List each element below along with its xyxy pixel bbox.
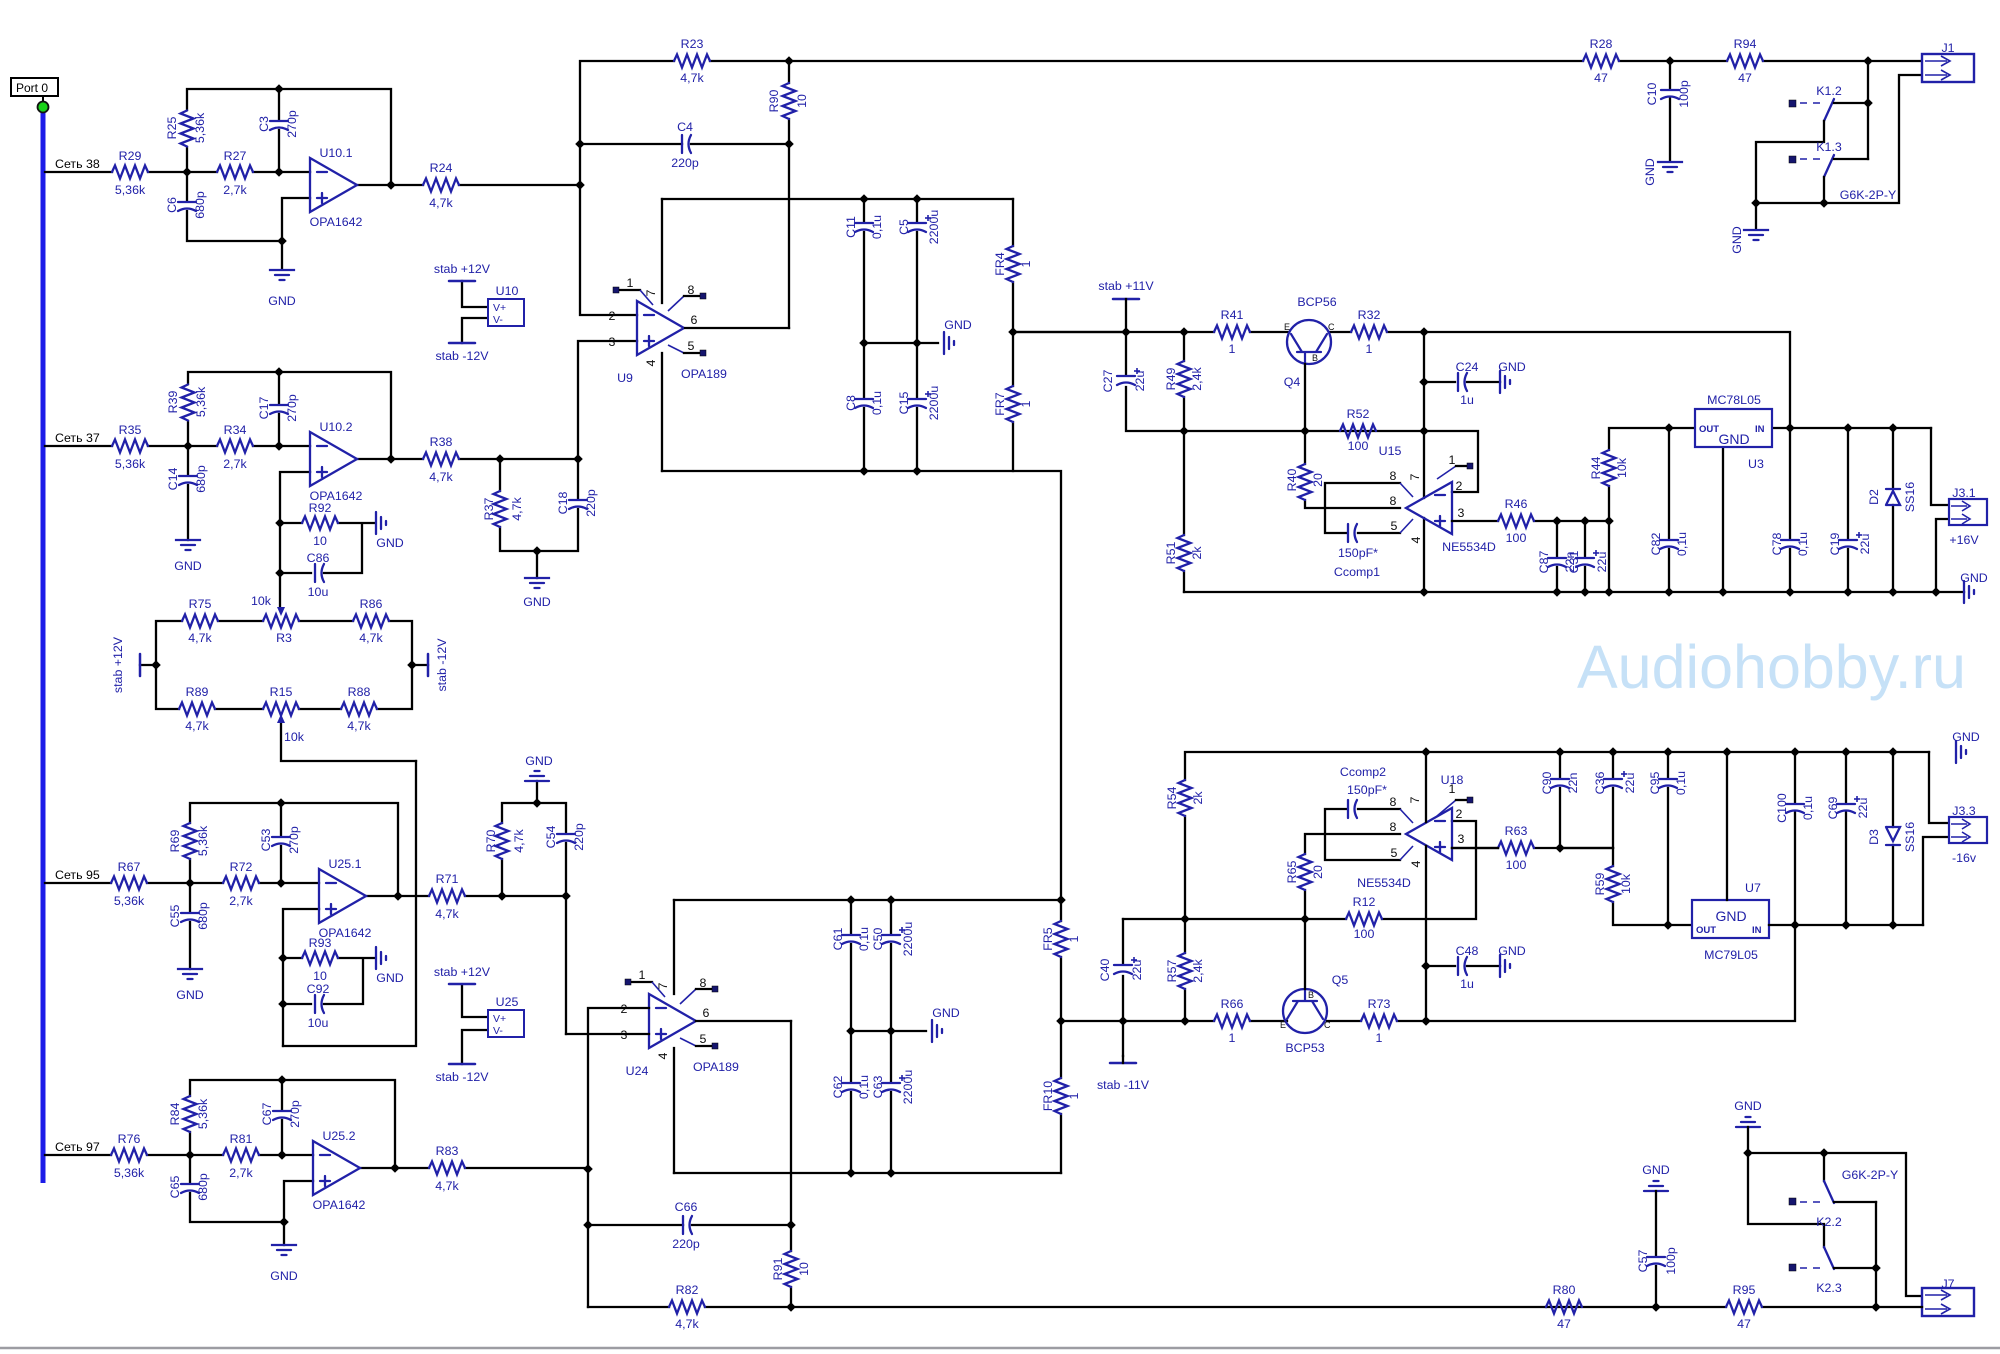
- svg-text:R57: R57: [1165, 960, 1179, 983]
- svg-text:270p: 270p: [285, 110, 299, 138]
- svg-text:V-: V-: [493, 314, 503, 326]
- svg-text:R88: R88: [348, 685, 371, 699]
- svg-text:22u: 22u: [1595, 552, 1609, 573]
- svg-text:C87: C87: [1537, 551, 1551, 574]
- svg-text:stab -12V: stab -12V: [435, 638, 449, 692]
- svg-text:4,7k: 4,7k: [680, 71, 704, 85]
- svg-text:C17: C17: [257, 397, 271, 420]
- svg-text:R84: R84: [168, 1103, 182, 1126]
- svg-text:C67: C67: [260, 1103, 274, 1126]
- svg-text:22u: 22u: [1623, 773, 1637, 794]
- svg-text:C48: C48: [1456, 944, 1479, 958]
- svg-text:R95: R95: [1733, 1283, 1756, 1297]
- svg-text:5,36k: 5,36k: [196, 825, 210, 856]
- svg-text:stab -12V: stab -12V: [435, 349, 489, 363]
- svg-text:R89: R89: [186, 685, 209, 699]
- svg-text:680p: 680p: [194, 465, 208, 493]
- svg-text:C8: C8: [844, 395, 858, 411]
- svg-text:4,7k: 4,7k: [429, 196, 453, 210]
- svg-text:C57: C57: [1636, 1250, 1650, 1273]
- svg-text:Q5: Q5: [1332, 973, 1349, 987]
- svg-text:K2.2: K2.2: [1816, 1215, 1842, 1229]
- svg-text:R69: R69: [168, 830, 182, 853]
- svg-text:Сеть 95: Сеть 95: [55, 868, 100, 882]
- svg-text:7: 7: [656, 982, 670, 989]
- svg-text:R86: R86: [360, 597, 383, 611]
- svg-text:MC79L05: MC79L05: [1704, 948, 1758, 962]
- svg-text:Q4: Q4: [1284, 375, 1301, 389]
- svg-text:10u: 10u: [308, 585, 329, 599]
- svg-text:C: C: [1328, 322, 1335, 332]
- svg-text:100p: 100p: [1664, 1247, 1678, 1275]
- svg-text:BCP53: BCP53: [1285, 1041, 1324, 1055]
- svg-text:U24: U24: [626, 1064, 649, 1078]
- svg-text:5,36k: 5,36k: [114, 1166, 145, 1180]
- svg-text:5,36k: 5,36k: [114, 894, 145, 908]
- svg-text:E: E: [1284, 322, 1290, 332]
- svg-text:0,1u: 0,1u: [1674, 771, 1688, 795]
- svg-text:7: 7: [1408, 796, 1422, 803]
- svg-text:U10.2: U10.2: [319, 420, 352, 434]
- svg-text:C63: C63: [871, 1076, 885, 1099]
- svg-text:100: 100: [1354, 927, 1375, 941]
- svg-text:C69: C69: [1826, 797, 1840, 820]
- svg-text:GND: GND: [376, 971, 404, 985]
- svg-text:C6: C6: [165, 197, 179, 213]
- svg-text:GND: GND: [1642, 1163, 1670, 1177]
- svg-text:C53: C53: [259, 829, 273, 852]
- svg-text:1: 1: [1376, 1031, 1383, 1045]
- svg-text:GND: GND: [1498, 360, 1526, 374]
- svg-text:C66: C66: [675, 1200, 698, 1214]
- svg-text:R59: R59: [1593, 873, 1607, 896]
- svg-text:6: 6: [691, 313, 698, 327]
- svg-text:680p: 680p: [196, 902, 210, 930]
- svg-text:20: 20: [1311, 865, 1325, 879]
- svg-text:22n: 22n: [1566, 773, 1580, 794]
- svg-text:C65: C65: [168, 1176, 182, 1199]
- svg-text:20: 20: [1311, 473, 1325, 487]
- svg-text:2200u: 2200u: [927, 210, 941, 245]
- svg-text:+16V: +16V: [1949, 533, 1979, 547]
- svg-text:U25.1: U25.1: [328, 857, 361, 871]
- svg-text:1: 1: [1067, 1092, 1081, 1099]
- svg-text:R44: R44: [1589, 457, 1603, 480]
- svg-text:U25: U25: [496, 995, 519, 1009]
- svg-text:0,1u: 0,1u: [1675, 532, 1689, 556]
- svg-text:4,7k: 4,7k: [188, 631, 212, 645]
- svg-text:C31: C31: [1567, 551, 1581, 574]
- svg-text:3: 3: [1458, 506, 1465, 520]
- svg-text:10k: 10k: [1615, 457, 1629, 478]
- svg-text:R63: R63: [1505, 824, 1528, 838]
- svg-text:MC78L05: MC78L05: [1707, 393, 1761, 407]
- svg-text:U10: U10: [496, 284, 519, 298]
- svg-text:2200u: 2200u: [901, 1070, 915, 1105]
- svg-text:5,36k: 5,36k: [193, 112, 207, 143]
- svg-text:C11: C11: [844, 216, 858, 238]
- svg-text:R66: R66: [1221, 997, 1244, 1011]
- svg-text:IN: IN: [1755, 424, 1765, 435]
- svg-text:1: 1: [1229, 1031, 1236, 1045]
- svg-text:GND: GND: [376, 536, 404, 550]
- svg-text:C5: C5: [897, 219, 911, 235]
- svg-text:FR4: FR4: [993, 252, 1007, 276]
- svg-text:R28: R28: [1590, 37, 1613, 51]
- svg-text:stab +12V: stab +12V: [111, 636, 125, 693]
- svg-text:8: 8: [1390, 820, 1397, 834]
- svg-text:4,7k: 4,7k: [185, 719, 209, 733]
- svg-text:1: 1: [1366, 342, 1373, 356]
- svg-text:R46: R46: [1505, 497, 1528, 511]
- svg-text:2: 2: [1456, 807, 1463, 821]
- svg-text:R38: R38: [430, 435, 453, 449]
- svg-text:J1: J1: [1941, 41, 1954, 55]
- svg-text:7: 7: [644, 289, 658, 296]
- svg-text:C10: C10: [1645, 83, 1659, 106]
- svg-text:OPA1642: OPA1642: [310, 215, 363, 229]
- svg-text:R23: R23: [681, 37, 704, 51]
- svg-text:R25: R25: [165, 117, 179, 140]
- svg-text:C78: C78: [1770, 533, 1784, 556]
- svg-text:220p: 220p: [672, 1237, 700, 1251]
- svg-text:2,7k: 2,7k: [223, 457, 247, 471]
- svg-text:J7: J7: [1941, 1277, 1954, 1291]
- svg-text:5: 5: [700, 1032, 707, 1046]
- svg-text:Port 0: Port 0: [16, 81, 48, 95]
- svg-text:GND: GND: [1715, 908, 1746, 924]
- svg-text:4,7k: 4,7k: [429, 470, 453, 484]
- svg-text:4,7k: 4,7k: [435, 1179, 459, 1193]
- svg-text:3: 3: [609, 335, 616, 349]
- svg-text:2,7k: 2,7k: [223, 183, 247, 197]
- svg-text:R65: R65: [1285, 861, 1299, 884]
- svg-text:C40: C40: [1098, 959, 1112, 982]
- svg-text:C: C: [1324, 1020, 1331, 1030]
- svg-text:2k: 2k: [1190, 546, 1204, 560]
- svg-text:D2: D2: [1867, 489, 1881, 505]
- svg-text:47: 47: [1738, 71, 1752, 85]
- svg-text:2: 2: [609, 309, 616, 323]
- svg-text:4,7k: 4,7k: [675, 1317, 699, 1331]
- svg-text:R70: R70: [484, 830, 498, 853]
- svg-text:270p: 270p: [285, 394, 299, 422]
- svg-text:5: 5: [1391, 519, 1398, 533]
- svg-text:R76: R76: [118, 1132, 141, 1146]
- svg-text:R32: R32: [1358, 308, 1381, 322]
- svg-text:U3: U3: [1748, 457, 1764, 471]
- svg-text:C82: C82: [1649, 533, 1663, 556]
- svg-text:GND: GND: [944, 318, 972, 332]
- svg-text:OUT: OUT: [1699, 424, 1719, 435]
- svg-text:R35: R35: [119, 423, 142, 437]
- svg-text:7: 7: [1408, 473, 1422, 480]
- svg-text:C27: C27: [1101, 370, 1115, 393]
- svg-text:22u: 22u: [1856, 798, 1870, 819]
- svg-text:4: 4: [644, 359, 658, 366]
- svg-text:R91: R91: [771, 1258, 785, 1281]
- svg-text:C50: C50: [871, 928, 885, 951]
- svg-text:C62: C62: [831, 1076, 845, 1099]
- svg-text:R40: R40: [1285, 469, 1299, 492]
- svg-text:J3.3: J3.3: [1952, 804, 1976, 818]
- svg-text:680p: 680p: [196, 1173, 210, 1201]
- svg-text:U7: U7: [1745, 881, 1761, 895]
- svg-text:1: 1: [1019, 260, 1033, 267]
- svg-text:B: B: [1308, 990, 1314, 1000]
- svg-text:B: B: [1312, 353, 1318, 363]
- svg-text:GND: GND: [268, 294, 296, 308]
- svg-text:E: E: [1280, 1020, 1286, 1030]
- svg-text:1: 1: [639, 968, 646, 982]
- svg-text:U10.1: U10.1: [319, 146, 352, 160]
- svg-text:150pF*: 150pF*: [1338, 546, 1378, 560]
- svg-text:G6K-2P-Y: G6K-2P-Y: [1840, 188, 1896, 202]
- svg-text:R90: R90: [767, 90, 781, 113]
- svg-text:220p: 220p: [572, 823, 586, 851]
- svg-text:1: 1: [1449, 453, 1456, 467]
- svg-text:K1.2: K1.2: [1816, 84, 1842, 98]
- svg-text:NE5534D: NE5534D: [1357, 876, 1411, 890]
- svg-text:R93: R93: [309, 936, 332, 950]
- svg-text:47: 47: [1557, 1317, 1571, 1331]
- svg-text:8: 8: [1390, 494, 1397, 508]
- svg-text:BCP56: BCP56: [1297, 295, 1336, 309]
- svg-text:8: 8: [1390, 469, 1397, 483]
- svg-text:OUT: OUT: [1696, 925, 1716, 936]
- svg-text:OPA189: OPA189: [681, 367, 727, 381]
- svg-text:K2.3: K2.3: [1816, 1281, 1842, 1295]
- svg-text:R34: R34: [224, 423, 247, 437]
- svg-text:2,7k: 2,7k: [229, 1166, 253, 1180]
- svg-text:0,1u: 0,1u: [857, 1075, 871, 1099]
- svg-text:4,7k: 4,7k: [435, 907, 459, 921]
- svg-text:GND: GND: [932, 1006, 960, 1020]
- svg-text:22u: 22u: [1858, 534, 1872, 555]
- svg-text:GND: GND: [174, 559, 202, 573]
- svg-text:R37: R37: [482, 498, 496, 521]
- svg-text:R49: R49: [1164, 368, 1178, 391]
- svg-text:2k: 2k: [1191, 791, 1205, 805]
- svg-text:U25.2: U25.2: [322, 1129, 355, 1143]
- svg-text:SS16: SS16: [1903, 482, 1917, 512]
- svg-text:150pF*: 150pF*: [1347, 783, 1387, 797]
- svg-text:R82: R82: [676, 1283, 699, 1297]
- svg-text:IN: IN: [1752, 925, 1762, 936]
- svg-text:Сеть 97: Сеть 97: [55, 1140, 100, 1154]
- svg-text:GND: GND: [1498, 944, 1526, 958]
- svg-text:10: 10: [797, 1262, 811, 1276]
- svg-text:R80: R80: [1553, 1283, 1576, 1297]
- svg-text:1: 1: [627, 276, 634, 290]
- svg-text:R41: R41: [1221, 308, 1244, 322]
- svg-text:8: 8: [688, 283, 695, 297]
- svg-text:stab +11V: stab +11V: [1098, 279, 1154, 293]
- svg-text:C90: C90: [1540, 772, 1554, 795]
- svg-text:R72: R72: [230, 860, 253, 874]
- svg-text:22u: 22u: [1130, 960, 1144, 981]
- svg-text:2,4k: 2,4k: [1190, 366, 1204, 390]
- svg-text:10: 10: [795, 94, 809, 108]
- svg-text:stab +12V: stab +12V: [434, 965, 491, 979]
- svg-text:R81: R81: [230, 1132, 253, 1146]
- svg-text:Ccomp1: Ccomp1: [1334, 565, 1380, 579]
- svg-text:-16v: -16v: [1952, 851, 1977, 865]
- svg-text:D3: D3: [1867, 829, 1881, 845]
- svg-text:0,1u: 0,1u: [857, 927, 871, 951]
- svg-text:GND: GND: [1952, 730, 1980, 744]
- svg-text:10: 10: [313, 534, 327, 548]
- svg-text:8: 8: [700, 976, 707, 990]
- svg-text:4: 4: [656, 1052, 670, 1059]
- svg-text:47: 47: [1737, 1317, 1751, 1331]
- svg-text:1: 1: [1019, 400, 1033, 407]
- svg-text:FR7: FR7: [993, 392, 1007, 416]
- svg-text:stab -12V: stab -12V: [435, 1070, 489, 1084]
- svg-text:Сеть 38: Сеть 38: [55, 157, 100, 171]
- svg-text:R54: R54: [1165, 787, 1179, 810]
- svg-text:2200u: 2200u: [901, 922, 915, 957]
- svg-text:1: 1: [1067, 935, 1081, 942]
- svg-text:C4: C4: [677, 120, 693, 134]
- svg-text:R29: R29: [119, 149, 142, 163]
- svg-text:R52: R52: [1347, 407, 1370, 421]
- svg-text:NE5534D: NE5534D: [1442, 540, 1496, 554]
- svg-text:5,36k: 5,36k: [115, 457, 146, 471]
- svg-text:680p: 680p: [193, 191, 207, 219]
- svg-text:C92: C92: [307, 982, 330, 996]
- svg-text:R3: R3: [276, 631, 292, 645]
- svg-text:5,36k: 5,36k: [115, 183, 146, 197]
- svg-text:C14: C14: [166, 468, 180, 491]
- svg-text:0,1u: 0,1u: [1796, 532, 1810, 556]
- svg-text:5: 5: [1391, 846, 1398, 860]
- svg-text:4,7k: 4,7k: [347, 719, 371, 733]
- svg-text:5: 5: [688, 339, 695, 353]
- svg-text:R71: R71: [436, 872, 459, 886]
- svg-text:8: 8: [1390, 795, 1397, 809]
- svg-text:100p: 100p: [1677, 80, 1691, 108]
- svg-text:4,7k: 4,7k: [359, 631, 383, 645]
- svg-text:U15: U15: [1379, 444, 1402, 458]
- svg-text:2,7k: 2,7k: [229, 894, 253, 908]
- svg-text:10k: 10k: [251, 594, 272, 608]
- svg-text:R51: R51: [1164, 542, 1178, 565]
- svg-text:1: 1: [1229, 342, 1236, 356]
- svg-text:Сеть 37: Сеть 37: [55, 431, 100, 445]
- svg-text:10k: 10k: [1619, 873, 1633, 894]
- svg-text:J3.1: J3.1: [1952, 486, 1976, 500]
- svg-text:C61: C61: [831, 928, 845, 951]
- svg-text:V-: V-: [493, 1025, 503, 1037]
- svg-text:5,36k: 5,36k: [194, 386, 208, 417]
- svg-text:C55: C55: [168, 905, 182, 928]
- svg-text:OPA1642: OPA1642: [313, 1198, 366, 1212]
- svg-text:270p: 270p: [288, 1100, 302, 1128]
- svg-text:4: 4: [1409, 860, 1423, 867]
- svg-text:OPA189: OPA189: [693, 1060, 739, 1074]
- svg-text:10u: 10u: [308, 1016, 329, 1030]
- svg-text:R94: R94: [1734, 37, 1757, 51]
- svg-text:R12: R12: [1353, 895, 1376, 909]
- svg-text:G6K-2P-Y: G6K-2P-Y: [1842, 1168, 1898, 1182]
- svg-text:100: 100: [1506, 531, 1527, 545]
- svg-text:R24: R24: [430, 161, 453, 175]
- svg-text:U9: U9: [617, 371, 633, 385]
- svg-text:220p: 220p: [671, 156, 699, 170]
- svg-text:FR10: FR10: [1041, 1081, 1055, 1111]
- svg-text:22u: 22u: [1133, 371, 1147, 392]
- svg-text:2,4k: 2,4k: [1191, 958, 1205, 982]
- svg-text:R15: R15: [270, 685, 293, 699]
- svg-text:100: 100: [1506, 858, 1527, 872]
- svg-text:C19: C19: [1828, 533, 1842, 556]
- svg-text:1u: 1u: [1460, 393, 1474, 407]
- svg-text:270p: 270p: [287, 826, 301, 854]
- svg-text:10k: 10k: [284, 730, 305, 744]
- svg-text:stab +12V: stab +12V: [434, 262, 491, 276]
- svg-text:2200u: 2200u: [927, 386, 941, 421]
- svg-text:V+: V+: [493, 1013, 506, 1025]
- svg-text:GND: GND: [1718, 431, 1749, 447]
- svg-text:R73: R73: [1368, 997, 1391, 1011]
- svg-text:C18: C18: [556, 492, 570, 515]
- svg-text:1u: 1u: [1460, 977, 1474, 991]
- svg-text:Audiohobby.ru: Audiohobby.ru: [1577, 633, 1966, 701]
- svg-text:6: 6: [703, 1006, 710, 1020]
- svg-text:SS16: SS16: [1903, 822, 1917, 852]
- svg-text:10: 10: [313, 969, 327, 983]
- svg-text:R27: R27: [224, 149, 247, 163]
- svg-text:C100: C100: [1775, 793, 1789, 823]
- svg-text:C36: C36: [1593, 772, 1607, 795]
- svg-text:3: 3: [1458, 832, 1465, 846]
- svg-text:0,1u: 0,1u: [1801, 796, 1815, 820]
- svg-text:220p: 220p: [584, 489, 598, 517]
- svg-text:GND: GND: [1960, 571, 1988, 585]
- svg-text:R67: R67: [118, 860, 141, 874]
- svg-text:GND: GND: [270, 1269, 298, 1283]
- svg-text:FR5: FR5: [1041, 927, 1055, 951]
- svg-text:C24: C24: [1456, 360, 1479, 374]
- svg-text:4,7k: 4,7k: [510, 496, 524, 520]
- svg-text:K1.3: K1.3: [1816, 140, 1842, 154]
- svg-text:GND: GND: [176, 988, 204, 1002]
- svg-text:U18: U18: [1441, 773, 1464, 787]
- svg-text:100: 100: [1348, 439, 1369, 453]
- svg-text:GND: GND: [525, 754, 553, 768]
- svg-text:GND: GND: [523, 595, 551, 609]
- svg-text:47: 47: [1594, 71, 1608, 85]
- svg-text:0,1u: 0,1u: [870, 391, 884, 415]
- svg-text:R39: R39: [166, 391, 180, 414]
- svg-text:Ccomp2: Ccomp2: [1340, 765, 1386, 779]
- svg-text:4: 4: [1409, 536, 1423, 543]
- svg-text:C86: C86: [307, 551, 330, 565]
- svg-text:R92: R92: [309, 501, 332, 515]
- svg-text:GND: GND: [1643, 158, 1657, 186]
- svg-text:R83: R83: [436, 1144, 459, 1158]
- svg-text:5,36k: 5,36k: [196, 1098, 210, 1129]
- svg-text:C54: C54: [544, 826, 558, 849]
- svg-text:C95: C95: [1648, 772, 1662, 795]
- svg-text:V+: V+: [493, 302, 506, 314]
- svg-text:GND: GND: [1730, 226, 1744, 254]
- svg-text:2: 2: [1456, 479, 1463, 493]
- svg-text:0,1u: 0,1u: [870, 215, 884, 239]
- svg-text:GND: GND: [1734, 1099, 1762, 1113]
- svg-text:stab -11V: stab -11V: [1097, 1078, 1150, 1092]
